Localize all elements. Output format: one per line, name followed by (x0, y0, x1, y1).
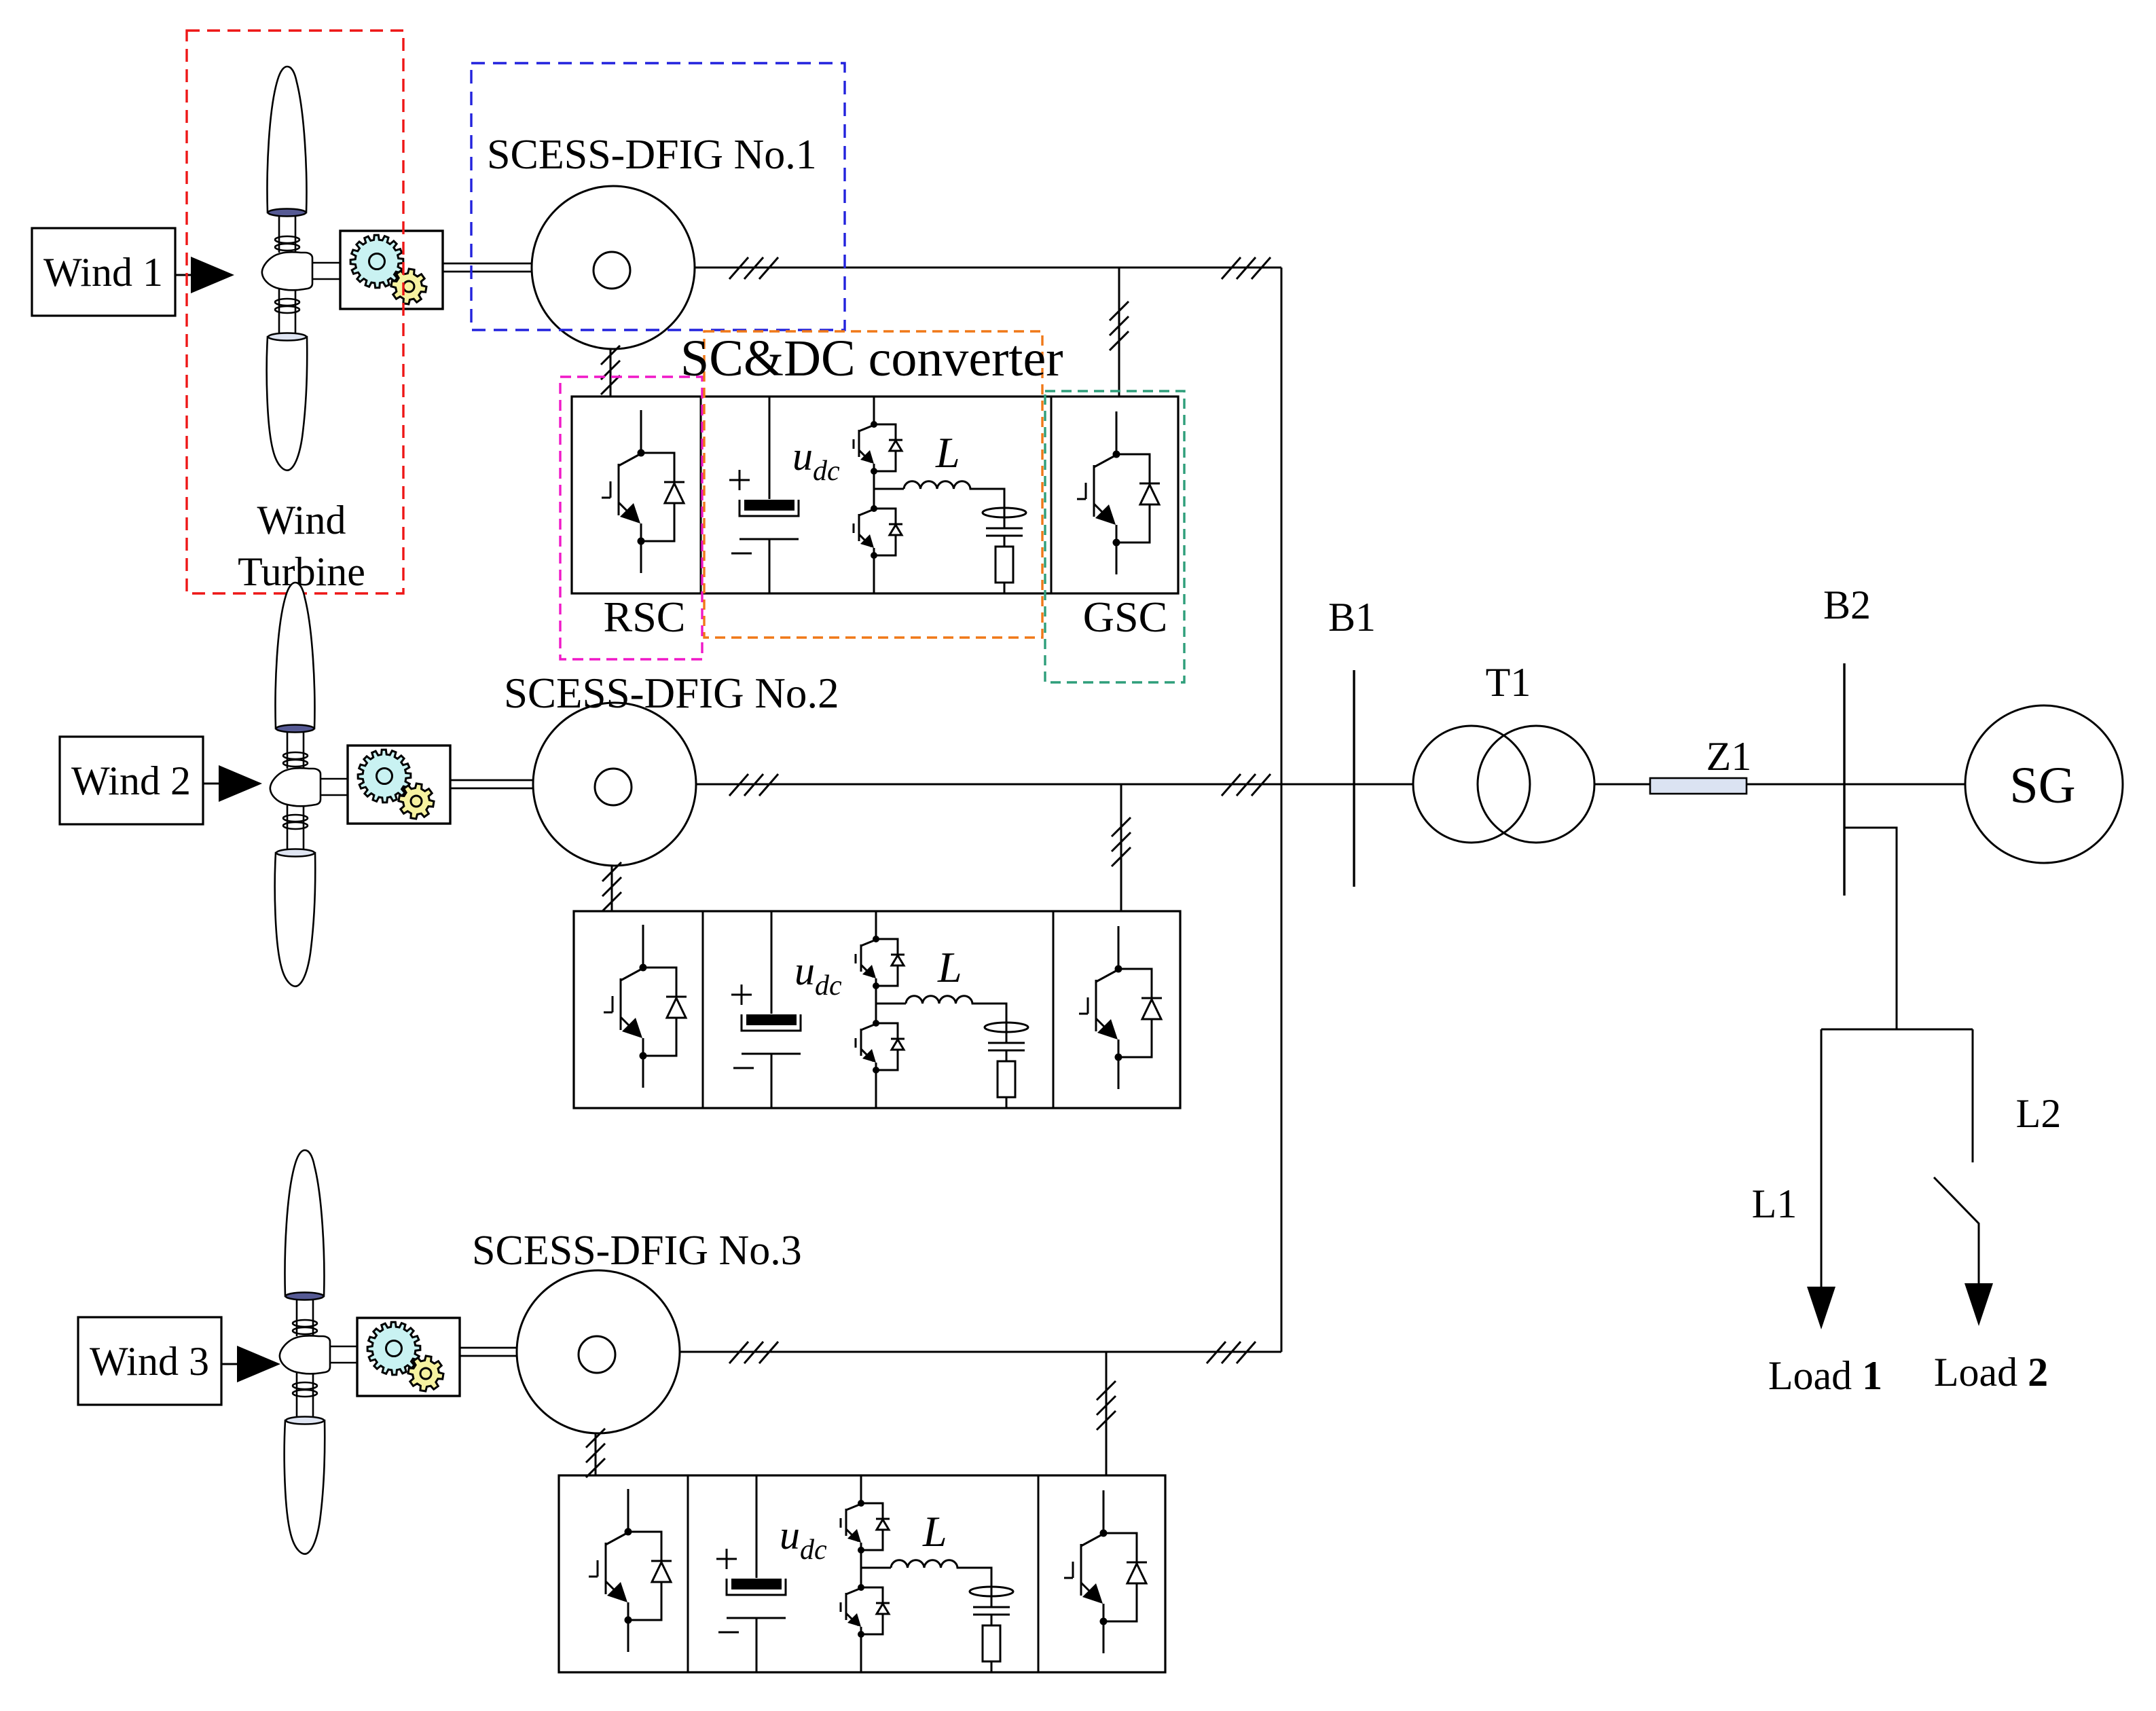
svg-text:Wind 1: Wind 1 (43, 250, 163, 295)
svg-text:GSC: GSC (1083, 593, 1168, 641)
svg-text:Load 1: Load 1 (1768, 1353, 1882, 1398)
svg-text:Z1: Z1 (1706, 734, 1752, 779)
svg-text:SC&DC converter: SC&DC converter (680, 330, 1063, 387)
svg-text:Wind: Wind (257, 498, 346, 542)
svg-text:B2: B2 (1823, 583, 1871, 627)
svg-text:SCESS-DFIG No.1: SCESS-DFIG No.1 (487, 132, 817, 178)
svg-text:T1: T1 (1486, 660, 1531, 705)
svg-text:SG: SG (2009, 757, 2075, 814)
svg-text:L1: L1 (1752, 1181, 1797, 1226)
svg-text:Load 2: Load 2 (1934, 1350, 2048, 1395)
svg-text:SCESS-DFIG No.2: SCESS-DFIG No.2 (504, 669, 839, 717)
svg-text:Wind 2: Wind 2 (71, 758, 191, 803)
svg-text:Wind 3: Wind 3 (90, 1339, 209, 1384)
svg-text:B1: B1 (1328, 595, 1376, 640)
svg-text:L2: L2 (2016, 1091, 2062, 1136)
svg-text:RSC: RSC (604, 593, 686, 641)
svg-text:SCESS-DFIG No.3: SCESS-DFIG No.3 (472, 1228, 802, 1274)
